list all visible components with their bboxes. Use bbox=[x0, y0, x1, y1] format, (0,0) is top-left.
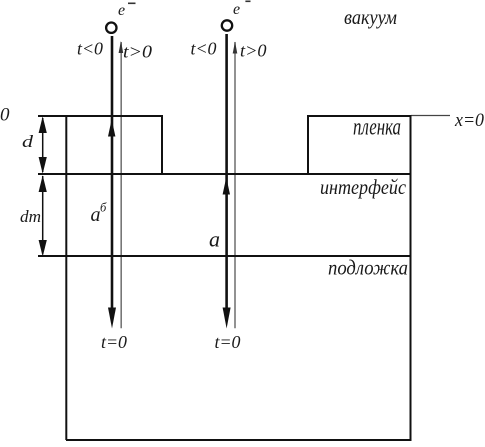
film top surface line (left block) bbox=[38, 115, 163, 117]
electron symbol (right) bbox=[222, 20, 232, 30]
emitted beam line t>0 (right) bbox=[234, 42, 236, 328]
substrate top line bbox=[38, 255, 412, 257]
interface line bbox=[38, 173, 412, 175]
outer box bottom edge bbox=[66, 439, 412, 441]
electron label e- (left) bbox=[118, 2, 136, 19]
dimension line dm bbox=[39, 175, 47, 256]
svg-text:t>0: t>0 bbox=[123, 42, 152, 62]
svg-text:0: 0 bbox=[0, 105, 10, 126]
outer box left edge bbox=[65, 115, 67, 440]
emitted beam top arrowhead (right) bbox=[233, 42, 238, 54]
svg-text:t=0: t=0 bbox=[215, 332, 241, 352]
emitted beam top arrowhead (left) bbox=[119, 41, 124, 53]
left film block right edge bbox=[161, 115, 163, 174]
right film block left edge bbox=[307, 116, 309, 174]
electron symbol (left) bbox=[106, 23, 116, 33]
svg-text:вакуум: вакуум bbox=[344, 5, 397, 29]
depth arrow a-film arrowhead up to film surface (left) bbox=[108, 119, 115, 136]
incident beam line t<0 (right) bbox=[225, 34, 228, 308]
film top surface line (right block) bbox=[307, 115, 412, 117]
svg-text:t>0: t>0 bbox=[240, 40, 267, 60]
svg-text:d: d bbox=[22, 132, 34, 151]
svg-text:пленка: пленка bbox=[353, 115, 401, 141]
incident beam bottom arrowhead t=0 (right) bbox=[223, 308, 231, 329]
dimension line d bbox=[39, 116, 47, 173]
svg-text:t<0: t<0 bbox=[191, 39, 217, 59]
svg-text:t=0: t=0 bbox=[101, 332, 127, 352]
outer box right edge bbox=[410, 115, 412, 441]
svg-text:a: a bbox=[209, 226, 220, 251]
emitted beam line t>0 (left) bbox=[120, 42, 122, 328]
label a-film (left beam) bbox=[91, 201, 108, 227]
x=0 reference line bbox=[411, 115, 450, 117]
svg-text:a: a bbox=[91, 204, 101, 226]
svg-text:dm: dm bbox=[20, 207, 41, 226]
incident beam bottom arrowhead t=0 (left) bbox=[108, 308, 116, 329]
svg-text:e: e bbox=[118, 2, 125, 19]
svg-text:x=0: x=0 bbox=[454, 110, 484, 131]
svg-text:e: e bbox=[233, 1, 240, 18]
incident beam line t<0 (left) bbox=[111, 36, 114, 308]
svg-text:подложка: подложка bbox=[328, 256, 408, 280]
svg-text:б: б bbox=[100, 201, 107, 215]
electron label e- (right) bbox=[233, 1, 251, 19]
svg-text:интерфейс: интерфейс bbox=[320, 175, 407, 199]
depth arrow a arrowhead up to interface (right) bbox=[223, 177, 230, 194]
svg-text:t<0: t<0 bbox=[77, 39, 103, 59]
